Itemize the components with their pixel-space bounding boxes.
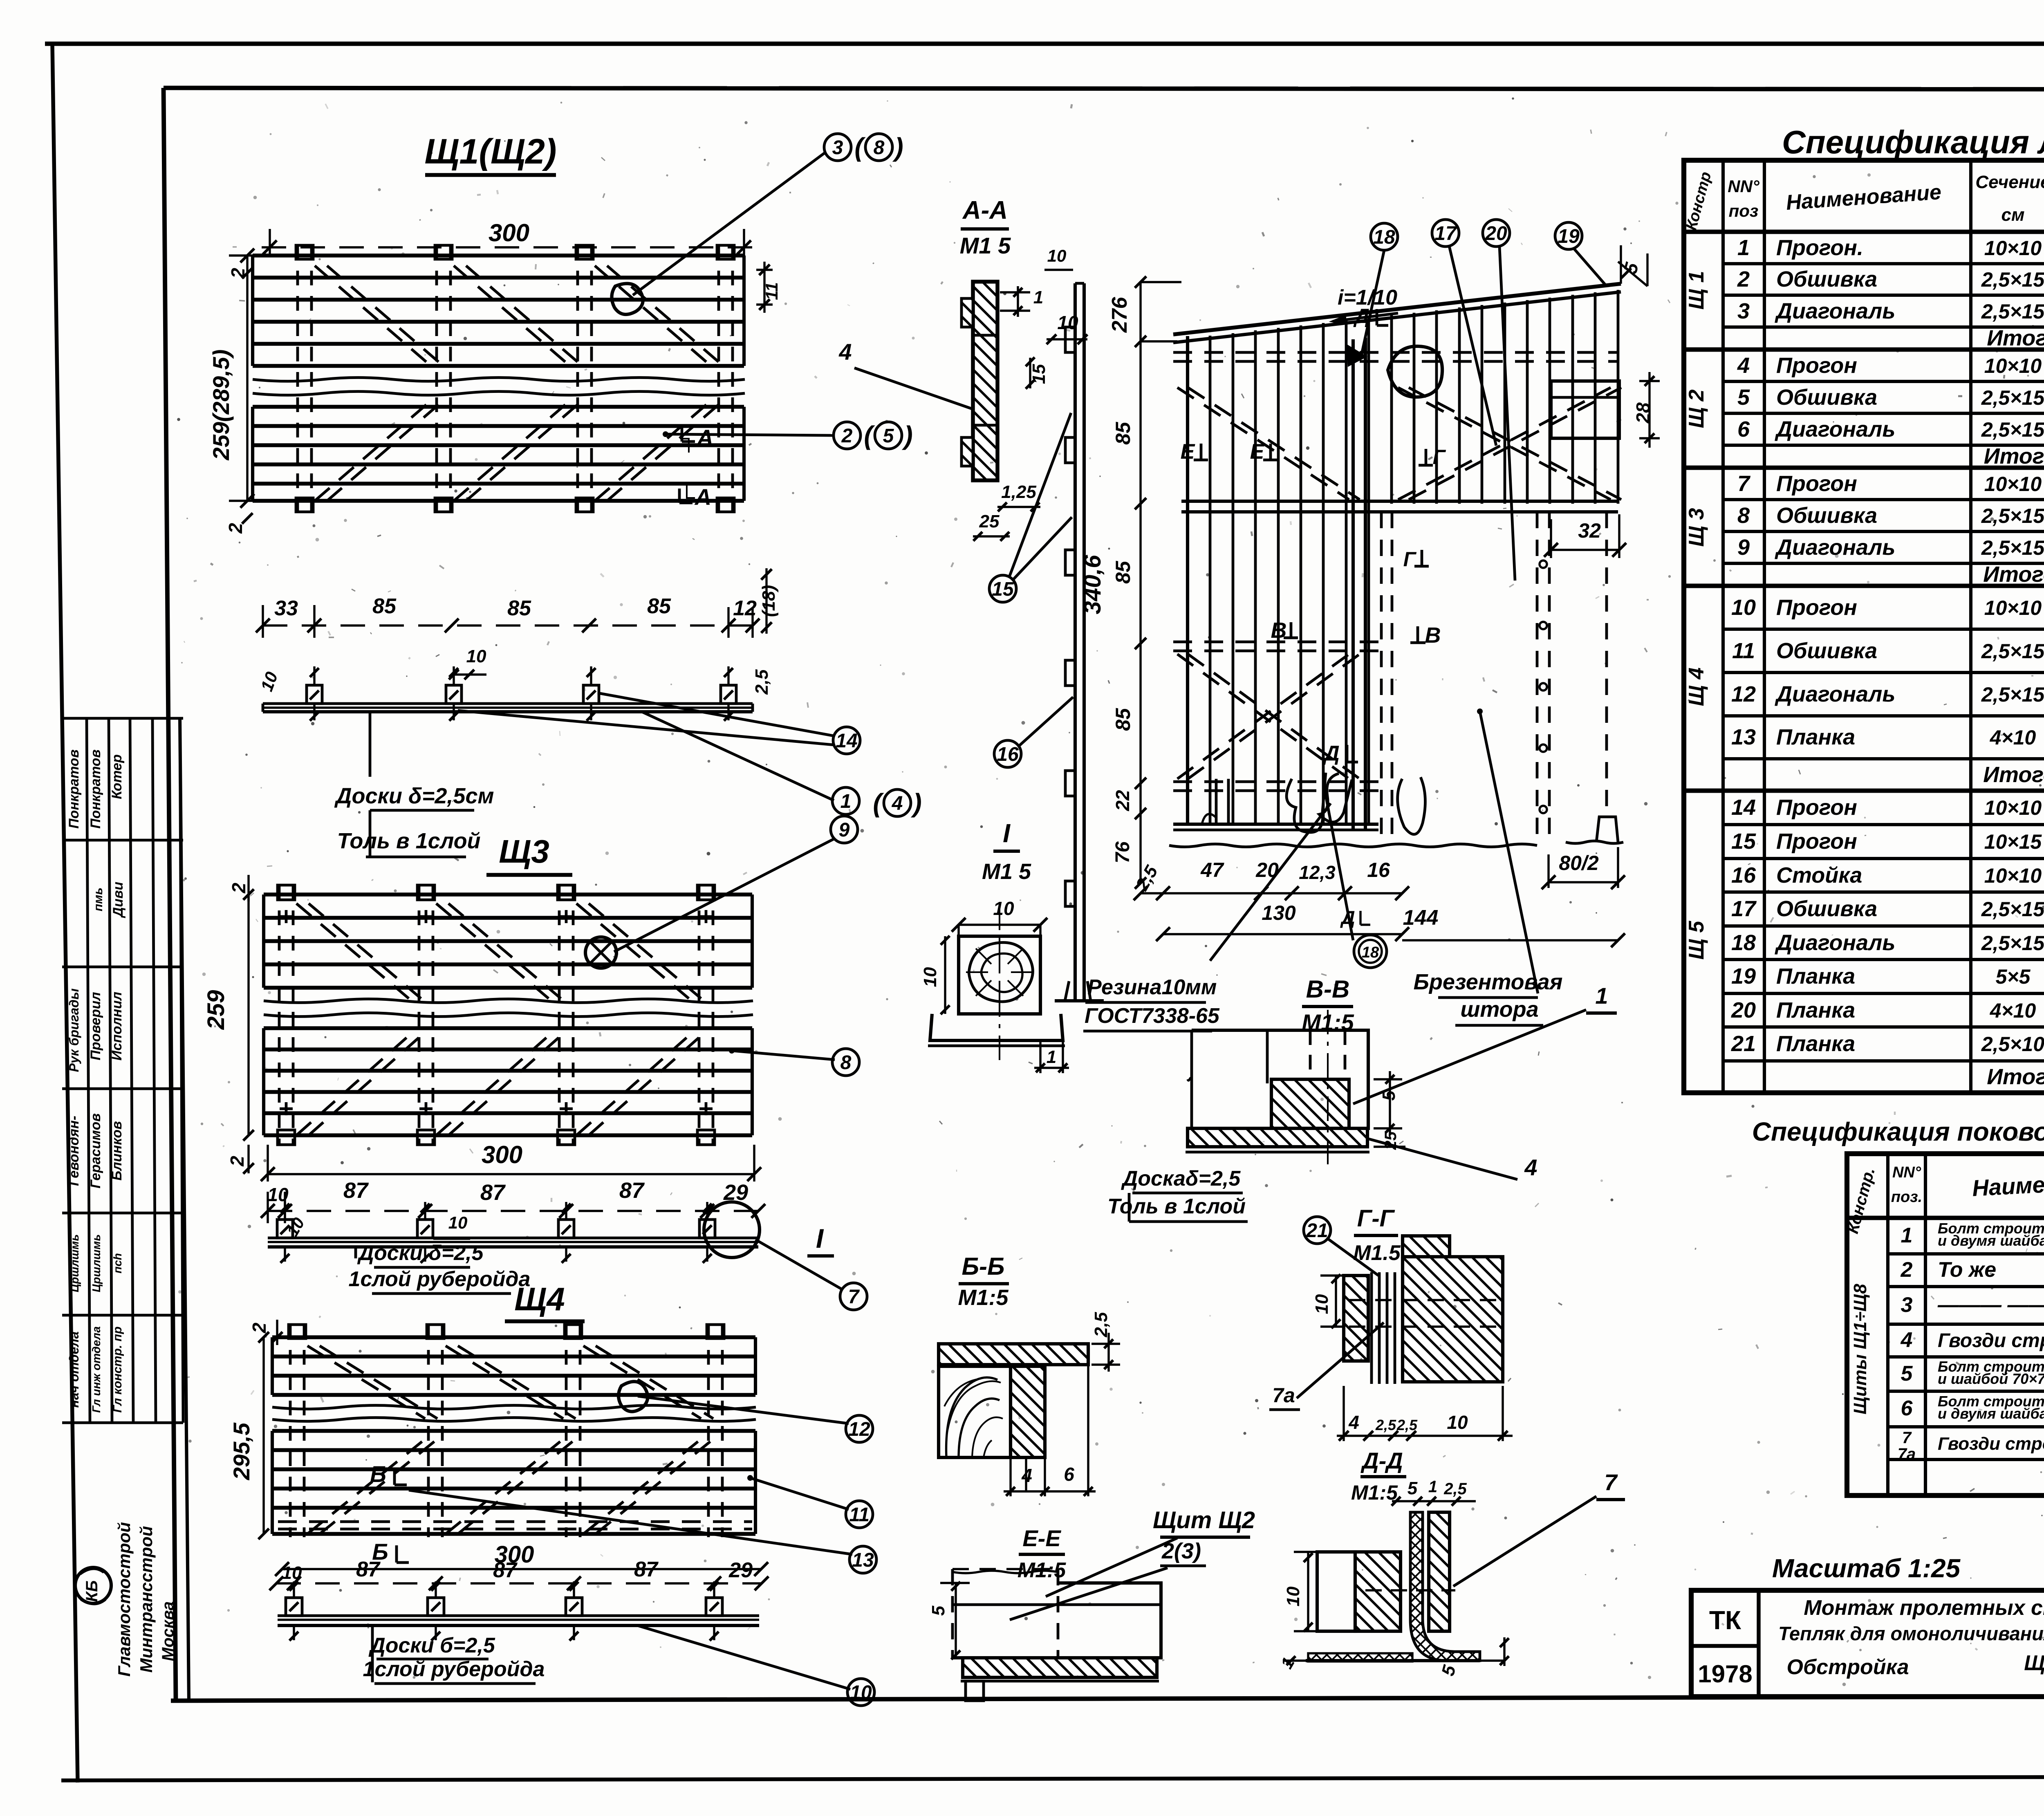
progon strip 4 <box>717 245 720 511</box>
svg-text:Гл констр. пр: Гл констр. пр <box>111 1327 124 1413</box>
svg-text:32: 32 <box>1578 519 1601 542</box>
Shch3 panel edges <box>262 895 265 988</box>
svg-text:——— ————: ——— ———— <box>1937 1293 2044 1317</box>
leaders to callouts 12 11 13 <box>638 1396 849 1424</box>
svg-text:Минтрансстрой: Минтрансстрой <box>137 1526 156 1673</box>
leader to callout 3(8) <box>633 152 826 295</box>
svg-text:22: 22 <box>1112 790 1133 812</box>
Shch4 boards bottom section <box>272 1429 755 1433</box>
table1 outer box <box>1684 160 2044 1093</box>
svg-text:Понкратов: Понкратов <box>66 749 82 829</box>
svg-text:85: 85 <box>507 596 531 620</box>
svg-text:20: 20 <box>1731 998 1756 1022</box>
svg-text:11: 11 <box>1732 639 1755 663</box>
G-G big right hatched block <box>1403 1257 1503 1382</box>
posts on bar Shch4 <box>286 1598 302 1616</box>
callout circle 7 <box>840 1283 867 1310</box>
svg-text:Щ3: Щ3 <box>499 833 549 870</box>
svg-text:4×10: 4×10 <box>1990 726 2036 749</box>
leader to callout 2(5) <box>666 434 834 435</box>
svg-text:5×5: 5×5 <box>1996 965 2031 988</box>
svg-text:Щ1(Щ2): Щ1(Щ2) <box>424 132 556 171</box>
svg-text:25: 25 <box>979 511 1000 531</box>
detail I log rings <box>969 942 1033 1002</box>
svg-text:Проверил: Проверил <box>88 992 103 1060</box>
table1 vertical lines <box>1721 160 1725 1093</box>
detail circle I around last post <box>704 1202 760 1258</box>
posts on bar Shch3 <box>277 1220 293 1238</box>
A-A left notches <box>961 298 973 327</box>
svg-text:и двумя шайбами: и двумя шайбами <box>1938 1405 2044 1422</box>
svg-text:10×10: 10×10 <box>1984 354 2042 377</box>
V-V hatched insert block <box>1271 1079 1349 1128</box>
svg-text:2,5: 2,5 <box>1443 1480 1467 1498</box>
svg-text:1: 1 <box>1033 287 1043 307</box>
svg-text:Котер: Котер <box>109 754 125 799</box>
leader from strip to callout 1(4) <box>642 712 834 800</box>
svg-text:Прогон: Прогон <box>1776 471 1857 496</box>
svg-text:9: 9 <box>1737 535 1750 560</box>
svg-text:Б: Б <box>370 1461 386 1487</box>
svg-text:1: 1 <box>1901 1224 1913 1247</box>
svg-text:Доски δ=2,5см: Доски δ=2,5см <box>334 784 494 808</box>
svg-text:┐A: ┐A <box>680 425 713 453</box>
svg-text:Толь в 1слой: Толь в 1слой <box>337 829 480 853</box>
V-V top slab outline with broken left edge <box>1192 1030 1368 1128</box>
svg-text:Щиты Щ1÷Щ8: Щиты Щ1÷Щ8 <box>1850 1284 1870 1415</box>
svg-text:Диви: Диви <box>110 881 126 918</box>
diagonal braces top section (dashed) <box>315 266 433 368</box>
stamp right edge down to KB block bottom <box>180 718 189 1701</box>
svg-text:2,5×15: 2,5×15 <box>1981 386 2044 409</box>
svg-text:1: 1 <box>1737 235 1750 260</box>
svg-text:144: 144 <box>1403 906 1439 930</box>
svg-text:10×10: 10×10 <box>1984 473 2042 495</box>
svg-text:47: 47 <box>1200 859 1224 881</box>
svg-text:2,5×15: 2,5×15 <box>1981 932 2044 955</box>
svg-text:Щ 3: Щ 3 <box>1685 508 1708 547</box>
B-B right hatched bar <box>1011 1366 1045 1457</box>
strip end tabs bottom <box>296 498 313 512</box>
vertical planks full width upper band <box>1186 338 1189 826</box>
panel Shch1 wavy break lines <box>253 378 745 381</box>
svg-text:1,25: 1,25 <box>1001 482 1036 502</box>
svg-text:130: 130 <box>1262 901 1296 924</box>
svg-text:Г-Г: Г-Г <box>1357 1205 1395 1232</box>
V-V internal vertical dashed lines <box>1309 1030 1312 1083</box>
svg-text:10: 10 <box>850 1682 872 1704</box>
top-right window rect <box>1551 381 1619 438</box>
svg-text:10: 10 <box>1047 246 1067 265</box>
svg-text:Главмостострой: Главмостострой <box>114 1522 134 1677</box>
svg-text:4×10: 4×10 <box>1990 999 2036 1022</box>
svg-text:Щиты Щ1÷Щ5: Щиты Щ1÷Щ5 <box>2024 1651 2044 1675</box>
svg-text:8: 8 <box>1737 503 1750 528</box>
svg-text:2,5×15: 2,5×15 <box>1981 268 2044 291</box>
svg-text:Масштаб 1:25: Масштаб 1:25 <box>1772 1554 1961 1583</box>
small arrow shape near blob <box>1348 347 1365 365</box>
svg-text:Монтаж пролетных строений 45: Монтаж пролетных строений 45,0и55,0м <box>1804 1596 2044 1620</box>
Shch4 diagonals top <box>307 1346 425 1419</box>
edge view foot <box>1065 981 1091 1001</box>
D-D rubber cross-hatched L strip <box>1410 1512 1480 1661</box>
svg-text:10×10: 10×10 <box>1984 796 2042 819</box>
label callout box for Shch4 section <box>371 1624 374 1682</box>
B-B thin line below <box>1025 1457 1027 1492</box>
svg-text:5: 5 <box>883 425 894 447</box>
svg-text:штора: штора <box>1460 997 1538 1022</box>
svg-text:Доски δ=2,5: Доски δ=2,5 <box>357 1241 484 1265</box>
double circle callout at bottom of Shch5 <box>1354 935 1387 968</box>
svg-text:└A: └A <box>679 484 711 510</box>
svg-text:19: 19 <box>1558 226 1580 247</box>
svg-text:Тепляк для омоноличивания сты: Тепляк для омоноличивания стыков плит пр… <box>1778 1623 2044 1644</box>
svg-text:Обшивка: Обшивка <box>1776 503 1877 528</box>
G-G dashed horizontal lines <box>1349 1299 1496 1301</box>
svg-text:85: 85 <box>372 594 397 618</box>
svg-text:М1 5: М1 5 <box>982 859 1031 884</box>
lower dashed rail 2 left part <box>1173 780 1378 783</box>
callout circle 11 <box>846 1501 873 1528</box>
callout circle 8 <box>832 1049 859 1076</box>
svg-text:пмь: пмь <box>92 888 105 911</box>
svg-text:2,5: 2,5 <box>1375 1417 1396 1433</box>
svg-text:2,5×15: 2,5×15 <box>1981 898 2044 921</box>
svg-text:12: 12 <box>1731 682 1756 706</box>
svg-text:20: 20 <box>1255 859 1279 881</box>
svg-text:16: 16 <box>1731 863 1756 888</box>
svg-text:85: 85 <box>1112 708 1134 731</box>
D-D rubber thin strip along base <box>1308 1653 1412 1661</box>
callout circle 18 and leader <box>1371 223 1398 250</box>
V-V bottom hatched strip <box>1188 1128 1367 1147</box>
svg-text:4: 4 <box>1524 1155 1537 1180</box>
left dim chain of Shch5 <box>1139 282 1141 883</box>
section bar Shch3 <box>268 1237 758 1240</box>
svg-text:Щ 1: Щ 1 <box>1685 271 1708 310</box>
svg-text:I: I <box>816 1223 824 1253</box>
callout circle 9 with leader to Shch3 target <box>831 816 858 843</box>
svg-text:7: 7 <box>848 1286 860 1308</box>
svg-text:псh: псh <box>111 1253 124 1273</box>
svg-text:Гвозди строительные: Гвозди строительные <box>1938 1330 2044 1352</box>
svg-text:3: 3 <box>1737 299 1750 323</box>
svg-text:87: 87 <box>356 1558 381 1581</box>
svg-text:87: 87 <box>619 1178 645 1203</box>
callout circle 15 with leaders <box>989 575 1016 602</box>
svg-text:Прогон: Прогон <box>1776 829 1857 854</box>
callout circle 17 and leader <box>1432 220 1459 247</box>
svg-text:20: 20 <box>1485 223 1507 244</box>
svg-text:Планка: Планка <box>1776 964 1855 989</box>
svg-text:17: 17 <box>1731 897 1757 921</box>
svg-text:21: 21 <box>1731 1031 1756 1056</box>
svg-text:Д: Д <box>1322 742 1340 765</box>
sheet outer border left <box>52 44 78 1782</box>
svg-text:4: 4 <box>838 339 852 365</box>
G-G middle board lines <box>1370 1272 1373 1384</box>
Shch4 boards top section <box>272 1335 755 1339</box>
door header beam double line <box>1181 500 1618 503</box>
svg-text:Обшивка: Обшивка <box>1776 385 1877 410</box>
KB emblem <box>75 1567 111 1603</box>
svg-text:2,5×15: 2,5×15 <box>1981 640 2044 663</box>
main frame left <box>164 88 176 1701</box>
svg-text:Понкратов: Понкратов <box>88 749 103 829</box>
main frame bottom <box>171 1696 2044 1701</box>
svg-text:2,5×15: 2,5×15 <box>1981 300 2044 323</box>
svg-text:17: 17 <box>1434 223 1457 244</box>
G-G left hatched block <box>1344 1276 1368 1361</box>
B-B top hatched strip <box>939 1344 1088 1365</box>
section bar Shch4 <box>278 1614 759 1617</box>
left bottom mudsill posts <box>1216 779 1228 824</box>
svg-text:87: 87 <box>343 1178 369 1203</box>
svg-text:Б-Б: Б-Б <box>962 1253 1005 1280</box>
svg-text:Гевондян-: Гевондян- <box>66 1116 82 1186</box>
callout target blob on strip3 <box>612 284 643 315</box>
svg-text:Гл инж отдела: Гл инж отдела <box>90 1326 103 1413</box>
dim 11 right top <box>756 269 773 271</box>
svg-text:Сечение: Сечение <box>1975 172 2044 192</box>
leader brezent to door <box>1480 711 1538 993</box>
svg-text:87: 87 <box>493 1558 518 1582</box>
progon strip 2 <box>435 245 438 511</box>
table1 group separator lines in konstr column <box>1684 348 1723 352</box>
svg-text:340,6: 340,6 <box>1079 555 1106 614</box>
svg-text:поз: поз <box>1729 201 1759 220</box>
svg-text:4: 4 <box>1737 353 1750 378</box>
svg-text:21: 21 <box>1306 1220 1328 1242</box>
callout circle (5) parenthesized <box>875 422 902 449</box>
svg-text:6: 6 <box>1901 1397 1913 1420</box>
blob target 18 irregular circle <box>1388 346 1442 397</box>
callout circle 10 <box>847 1679 874 1706</box>
svg-text:1978: 1978 <box>1698 1660 1752 1688</box>
svg-text:Щит Щ2: Щит Щ2 <box>1153 1507 1255 1534</box>
Shch3 boards top section <box>264 892 752 896</box>
svg-text:7: 7 <box>1737 471 1751 496</box>
svg-text:10×10: 10×10 <box>1984 596 2042 619</box>
svg-text:10×10: 10×10 <box>1984 237 2042 260</box>
bottom apron curvy shape (tarpaulin) <box>1286 773 1326 832</box>
svg-text:10×10: 10×10 <box>1984 864 2042 887</box>
svg-text:2,5×15: 2,5×15 <box>1981 418 2044 441</box>
svg-text:1слой руберойда: 1слой руберойда <box>349 1267 531 1291</box>
svg-text:Прогон: Прогон <box>1776 595 1857 620</box>
svg-text:76: 76 <box>1112 841 1134 863</box>
D-D right hatched vertical bar <box>1429 1512 1450 1631</box>
svg-text:14: 14 <box>836 730 857 752</box>
svg-text:10×15: 10×15 <box>1984 830 2042 853</box>
svg-text:и шайбой 70×70: и шайбой 70×70 <box>1938 1370 2044 1387</box>
B-B wood grain block <box>939 1366 1011 1457</box>
svg-text:18: 18 <box>1362 944 1379 961</box>
panel Shch1 boards top section <box>253 253 744 257</box>
table1 row lines and data <box>1723 230 2044 233</box>
Shch3 diagonals top <box>296 904 415 1004</box>
TK cell <box>1757 1590 1760 1697</box>
big diagonal braces lower left <box>1177 654 1349 779</box>
door opening dashed verticals <box>1380 512 1383 844</box>
speckle noise dots <box>912 337 915 340</box>
svg-text:Щ 5: Щ 5 <box>1685 921 1708 960</box>
svg-text:Диагональ: Диагональ <box>1775 299 1895 323</box>
svg-text:Спецификация лесоматериалов: Спецификация лесоматериалов <box>1782 124 2044 160</box>
callout circle (4) parenthesized <box>884 789 911 816</box>
detail I radial cracks <box>1011 971 1033 973</box>
callout circle 2 <box>834 422 861 449</box>
leader line from rubber note to view <box>1210 803 1331 961</box>
svg-text:Прогон.: Прогон. <box>1776 235 1863 260</box>
svg-text:Спецификация поковок и метизов: Спецификация поковок и метизов на весь т… <box>1752 1117 2044 1146</box>
callout circle 1 <box>832 787 859 814</box>
svg-text:NN°: NN° <box>1892 1164 1921 1181</box>
svg-text:То же: То же <box>1938 1258 1996 1282</box>
Shch3 plus marks on strips <box>280 915 293 918</box>
svg-text:Прогон: Прогон <box>1776 353 1857 378</box>
svg-text:Блинков: Блинков <box>109 1121 125 1180</box>
svg-text:85: 85 <box>1112 421 1134 445</box>
right column to ground with foot <box>1605 512 1608 816</box>
svg-text:Е: Е <box>1181 440 1195 464</box>
E-E small foot below <box>966 1681 984 1701</box>
E-E bottom hatched strip <box>963 1658 1157 1677</box>
svg-text:Диагональ: Диагональ <box>1775 682 1895 706</box>
callout circle 12 <box>846 1415 873 1442</box>
svg-text:Планка: Планка <box>1776 998 1855 1022</box>
Shch3 diagonals bottom <box>296 1030 415 1135</box>
svg-text:Брезентовая: Брезентовая <box>1414 970 1563 994</box>
svg-text:А-А: А-А <box>962 196 1008 224</box>
leader lines to labels <box>369 712 372 777</box>
svg-text:10: 10 <box>1312 1294 1332 1314</box>
V-V centerline <box>1327 1010 1329 1165</box>
panel Shch1 left and right edges <box>251 256 254 366</box>
svg-text:5: 5 <box>1407 1478 1418 1498</box>
svg-text:7а: 7а <box>1272 1384 1295 1407</box>
Shch3 boards bottom section <box>264 1026 752 1030</box>
Shch5 left edge post <box>1186 336 1189 826</box>
svg-text:5: 5 <box>1901 1362 1913 1386</box>
svg-text:Планка: Планка <box>1776 725 1855 749</box>
svg-text:8: 8 <box>874 137 885 159</box>
svg-text:поз.: поз. <box>1891 1188 1922 1206</box>
svg-text:1: 1 <box>1595 983 1608 1009</box>
small circles on door dashed line (bolts) <box>1540 560 1547 568</box>
svg-text:300: 300 <box>489 219 529 247</box>
svg-text:Цршлшмь: Цршлшмь <box>68 1234 81 1292</box>
photocopy smudges <box>551 1198 552 1202</box>
svg-text:см: см <box>2001 205 2024 225</box>
svg-text:Резина10мм: Резина10мм <box>1087 975 1217 999</box>
svg-text:12: 12 <box>848 1419 870 1440</box>
svg-text:5: 5 <box>1737 385 1750 410</box>
left section bottom bar <box>1173 823 1378 826</box>
leader to callout 10 <box>637 1625 850 1689</box>
svg-text:Д: Д <box>1353 305 1369 327</box>
svg-text:18: 18 <box>1373 226 1395 248</box>
svg-text:и двумя шайбами: и двумя шайбами <box>1938 1232 2044 1249</box>
D-D hatched block left-mid <box>1355 1552 1401 1631</box>
detail I centerline vertical <box>999 906 1000 1063</box>
svg-text:6: 6 <box>1064 1464 1074 1485</box>
A-A hatched bar <box>973 282 997 480</box>
svg-text:нач отдела: нач отдела <box>67 1332 81 1408</box>
svg-text:Цршлшмь: Цршлшмь <box>90 1234 103 1292</box>
svg-text:13: 13 <box>852 1549 874 1571</box>
horizontal dashed rail top <box>1173 351 1618 354</box>
svg-text:Итого: Итого <box>1987 1065 2044 1089</box>
Shch4 callout blob target <box>619 1381 648 1411</box>
boards edge-view bar <box>263 702 753 705</box>
svg-text:15: 15 <box>1731 829 1756 854</box>
svg-text:Итого:: Итого: <box>1983 762 2044 787</box>
svg-text:1слой руберойда: 1слой руберойда <box>363 1657 545 1681</box>
svg-text:10: 10 <box>1447 1412 1468 1433</box>
sloped top planks <box>1173 284 1621 334</box>
diagonal braces bottom section (dashed) <box>315 399 433 501</box>
svg-text:3: 3 <box>1901 1293 1913 1317</box>
detail I square <box>959 936 1040 1014</box>
svg-text:Г: Г <box>1433 446 1446 469</box>
svg-text:2: 2 <box>841 425 853 447</box>
D-D dashed center line <box>1365 1589 1455 1591</box>
Shch4 diagonals bottom <box>307 1439 425 1534</box>
svg-text:18: 18 <box>1731 930 1756 955</box>
door jamb solid posts <box>1351 339 1355 830</box>
main frame top <box>164 88 2044 90</box>
svg-text:Доски б=2,5: Доски б=2,5 <box>368 1634 495 1657</box>
svg-text:Герасимов: Герасимов <box>88 1113 103 1188</box>
Shch4 dashed bottom band <box>278 1520 752 1523</box>
callout circle 3 <box>824 134 851 161</box>
svg-text:2: 2 <box>249 1323 270 1334</box>
G-G callout 21 <box>1304 1217 1331 1244</box>
sheet outer border bottom <box>61 1776 2044 1780</box>
svg-text:10: 10 <box>1283 1586 1303 1606</box>
leader to callout 8 <box>729 1048 735 1054</box>
svg-text:2,5×10: 2,5×10 <box>1981 1033 2044 1056</box>
svg-text:16: 16 <box>997 744 1019 765</box>
svg-text:295,5: 295,5 <box>229 1422 254 1480</box>
E-E drawing outline <box>951 1569 954 1658</box>
callout circle 20 and leader <box>1483 220 1510 247</box>
svg-text:85: 85 <box>1112 560 1134 584</box>
svg-text:10: 10 <box>466 646 486 666</box>
callout circle (8) parenthesized <box>865 134 892 161</box>
svg-text:3: 3 <box>832 137 843 159</box>
svg-text:Е: Е <box>1250 440 1265 464</box>
Shch3 crossed-circle target <box>585 937 616 968</box>
svg-text:16: 16 <box>1367 859 1390 881</box>
svg-text:Рук бригады: Рук бригады <box>67 989 81 1072</box>
svg-text:Обстройка: Обстройка <box>1787 1655 1909 1679</box>
sheet outer border top <box>45 42 2044 46</box>
svg-text:4: 4 <box>892 793 903 814</box>
svg-text:10: 10 <box>920 967 940 987</box>
svg-text:9: 9 <box>839 819 850 841</box>
svg-text:7: 7 <box>1604 1469 1618 1495</box>
svg-text:Стойка: Стойка <box>1776 863 1862 888</box>
svg-text:7: 7 <box>1902 1429 1912 1447</box>
svg-text:2,5×15: 2,5×15 <box>1981 504 2044 527</box>
svg-text:ГОСТ7338-65: ГОСТ7338-65 <box>1085 1004 1220 1028</box>
svg-text:8: 8 <box>840 1052 852 1074</box>
svg-text:14: 14 <box>1731 795 1756 820</box>
callout circle 19 and leader <box>1555 222 1582 249</box>
svg-text:Итого: Итого <box>1987 326 2044 350</box>
